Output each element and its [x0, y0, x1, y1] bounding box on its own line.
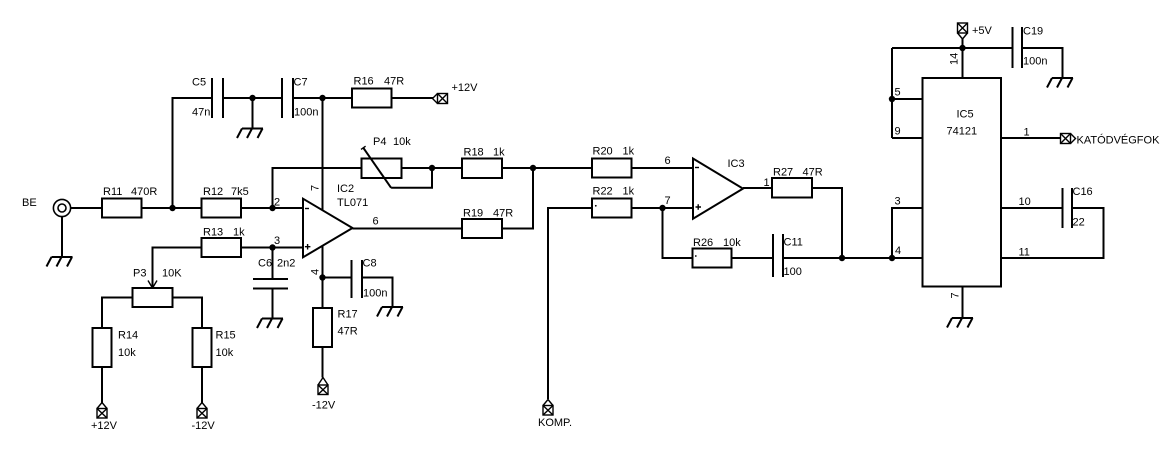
wire R17 to -12V port	[322, 347, 324, 378]
wire P4 wiper	[391, 168, 432, 188]
power port -12V	[192, 403, 216, 433]
svg-text:P3: P3	[133, 268, 146, 280]
ground	[377, 307, 403, 317]
svg-text:4: 4	[895, 245, 901, 257]
svg-text:6: 6	[665, 155, 671, 167]
svg-text:2n2: 2n2	[277, 258, 295, 270]
svg-text:C16: C16	[1073, 186, 1093, 198]
wire R16 to +12V port	[392, 97, 434, 99]
node 2 junction	[269, 205, 275, 211]
svg-text:5: 5	[895, 87, 901, 99]
wire junction down to IC2 pin 7	[322, 98, 324, 211]
svg-text:+5V: +5V	[972, 25, 993, 37]
wire P3 right terminal to R15	[173, 298, 203, 329]
resistor R14	[93, 328, 139, 367]
wire rail left leg to pins 5 and 9	[891, 48, 893, 138]
svg-text:C7: C7	[294, 77, 308, 89]
wire node 7 down to R26	[663, 208, 693, 258]
wire BE to R11	[71, 207, 102, 209]
node 7 junction	[659, 205, 665, 211]
svg-text:C11: C11	[784, 237, 803, 249]
node junction	[169, 205, 175, 211]
wire R26 to C11	[732, 257, 774, 259]
resistor R22	[592, 186, 635, 218]
ground	[1047, 78, 1073, 88]
svg-text:47R: 47R	[803, 167, 823, 179]
svg-text:1: 1	[764, 177, 770, 189]
P3 wiper arrow	[152, 282, 154, 288]
node 3 junction	[269, 244, 275, 250]
resistor R12	[202, 186, 249, 218]
node junction +5V rail	[959, 45, 965, 51]
wire junction down to ground	[252, 98, 254, 129]
wire +5V rail	[892, 47, 1013, 49]
ground	[257, 319, 283, 329]
node junction R27/C11	[839, 255, 845, 261]
resistor R20	[592, 146, 635, 178]
wire IC5 pin 14	[962, 48, 964, 78]
svg-text:7: 7	[950, 292, 962, 298]
svg-text:10k: 10k	[393, 136, 411, 148]
svg-text:7: 7	[310, 185, 322, 191]
capacitor C19	[1013, 26, 1048, 69]
node junction pin3/pin4	[889, 255, 895, 261]
svg-text:6: 6	[373, 216, 379, 228]
svg-text:R16: R16	[354, 76, 374, 88]
ground	[237, 129, 263, 139]
potentiometer P3	[133, 268, 183, 308]
svg-text:1k: 1k	[233, 227, 245, 239]
svg-text:100n: 100n	[294, 107, 318, 119]
svg-text:1k: 1k	[623, 146, 635, 158]
op-amp IC2	[303, 183, 368, 257]
wire R19 up to feedback node	[502, 168, 533, 229]
IC5 74121	[923, 78, 1002, 287]
wire +5V to rail	[962, 39, 964, 48]
wire R27 down to node	[812, 188, 842, 258]
node junction R18/R19/R20	[530, 165, 536, 171]
wire R13 to IC2 non-inverting input	[242, 247, 304, 249]
svg-text:C6: C6	[258, 258, 272, 270]
op-amp IC3	[693, 158, 745, 219]
wire node 2 up to feedback rail	[273, 168, 362, 208]
resistor R19	[462, 208, 513, 239]
svg-text:IC2: IC2	[337, 183, 354, 195]
resistor R13	[202, 227, 246, 258]
svg-text:10K: 10K	[162, 268, 182, 280]
svg-text:TL071: TL071	[337, 197, 368, 209]
svg-text:R20: R20	[593, 146, 613, 158]
wire C19 to ground	[1022, 48, 1063, 78]
wire node 4 to C8	[323, 277, 352, 279]
connector BE	[22, 197, 71, 217]
svg-text:R12: R12	[203, 186, 223, 198]
wire C8 to ground	[362, 278, 393, 308]
svg-text:1k: 1k	[623, 186, 635, 198]
svg-text:1k: 1k	[493, 147, 505, 159]
svg-text:R11: R11	[103, 186, 122, 198]
svg-text:IC5: IC5	[957, 109, 974, 121]
wire IC5 pin 1 to output port	[1001, 137, 1061, 139]
wire junction up to C5 rail	[173, 98, 213, 208]
svg-text:R18: R18	[464, 147, 484, 159]
capacitor C6	[253, 258, 295, 289]
capacitor C5	[192, 77, 223, 119]
svg-text:14: 14	[949, 53, 961, 65]
wire IC3 output to R27	[743, 187, 772, 189]
wire R18 to node	[502, 167, 592, 169]
potentiometer P4	[361, 136, 411, 188]
svg-text:IC3: IC3	[728, 158, 745, 170]
resistor R15	[193, 328, 236, 367]
wire C5 to C7	[223, 97, 282, 99]
svg-text:11: 11	[1019, 247, 1030, 259]
svg-text:4: 4	[310, 269, 322, 275]
wire R20 to IC3 inverting input	[632, 167, 694, 169]
svg-text:R27: R27	[773, 167, 793, 179]
svg-text:470R: 470R	[131, 186, 157, 198]
svg-text:47R: 47R	[493, 208, 513, 220]
svg-text:R13: R13	[203, 227, 223, 239]
svg-text:P4: P4	[373, 136, 386, 148]
svg-text:47R: 47R	[338, 326, 358, 338]
svg-text:7: 7	[665, 195, 671, 207]
resistor R16	[352, 76, 404, 108]
capacitor C7	[282, 77, 318, 119]
resistor R18	[462, 147, 505, 179]
port KOMP	[538, 400, 572, 430]
node junction	[249, 95, 255, 101]
wire IC5 pin 10 to C16	[1001, 207, 1063, 209]
svg-text:9: 9	[895, 126, 901, 138]
resistor R11	[102, 186, 157, 218]
svg-text:47R: 47R	[384, 76, 404, 88]
svg-text:47n: 47n	[192, 107, 210, 119]
svg-text:R17: R17	[338, 309, 358, 321]
svg-text:R15: R15	[216, 330, 236, 342]
svg-text:22: 22	[1073, 217, 1085, 229]
wire P4 right terminal to junction	[402, 167, 463, 169]
svg-text:C8: C8	[363, 258, 377, 270]
node junction	[319, 95, 325, 101]
svg-text:R19: R19	[463, 208, 483, 220]
wire R12 to IC2 inverting input	[242, 207, 304, 209]
wire IC5 pin 5	[892, 98, 923, 100]
svg-text:7k5: 7k5	[231, 186, 249, 198]
svg-text:3: 3	[895, 196, 901, 208]
capacitor C11	[773, 234, 803, 278]
node junction pin 5	[889, 96, 895, 102]
svg-text:74121: 74121	[947, 126, 978, 138]
wire node to IC5 pin 4	[842, 257, 923, 259]
wire IC5 pin 9	[892, 137, 923, 139]
wire C11 to node	[783, 257, 842, 259]
svg-text:BE: BE	[22, 197, 37, 209]
svg-text:10k: 10k	[723, 237, 741, 249]
resistor R26	[693, 237, 742, 268]
wire IC2 pin 4 down	[322, 246, 324, 308]
wire node up to IC5 pin 3	[892, 208, 923, 258]
svg-text:10k: 10k	[118, 347, 136, 359]
wire node 3 down to C6	[272, 248, 274, 280]
svg-text:KOMP.: KOMP.	[538, 417, 572, 429]
svg-text:100: 100	[784, 266, 802, 278]
power port +12V	[433, 82, 479, 104]
power port +5V	[958, 23, 993, 39]
ground	[47, 257, 73, 267]
svg-text:R14: R14	[118, 330, 138, 342]
capacitor C8	[352, 258, 388, 300]
wire C7 to R16	[293, 97, 352, 99]
wire IC2 output to R19	[353, 228, 463, 230]
svg-text:-12V: -12V	[192, 420, 216, 432]
svg-text:-12V: -12V	[312, 400, 336, 412]
svg-text:10k: 10k	[216, 347, 234, 359]
power port +12V	[91, 403, 118, 433]
wire P3 left terminal to R14	[102, 298, 133, 329]
wire R11 to R12	[142, 207, 202, 209]
svg-text:10: 10	[1019, 196, 1031, 208]
svg-text:KATÓDVÉGFOK: KATÓDVÉGFOK	[1077, 134, 1161, 147]
svg-text:C19: C19	[1023, 26, 1043, 38]
capacitor C16	[1063, 186, 1093, 229]
node junction P4/R18	[429, 165, 435, 171]
svg-text:+12V: +12V	[452, 82, 479, 94]
wire R14 to +12V port	[101, 367, 103, 403]
svg-text:3: 3	[274, 235, 280, 247]
wire IC5 pin 7 to ground	[962, 287, 964, 319]
svg-text:R22: R22	[593, 186, 613, 198]
wire R13 left to P3 wiper	[153, 248, 202, 282]
svg-text:R26: R26	[693, 237, 713, 249]
resistor R17	[313, 308, 358, 347]
svg-text:+12V: +12V	[91, 420, 118, 432]
svg-text:100n: 100n	[1023, 56, 1047, 68]
resistor R27	[772, 167, 823, 198]
ground	[947, 318, 973, 328]
svg-text:1: 1	[1024, 127, 1030, 139]
svg-text:100n: 100n	[363, 288, 387, 300]
wire R22 to IC3 non-inverting input	[632, 207, 694, 209]
wire R15 to -12V port	[201, 367, 203, 403]
wire BE down to ground	[61, 217, 63, 257]
port KATODVEGFOK	[1061, 134, 1161, 147]
wire C16 right to pin 11	[1001, 208, 1104, 258]
svg-text:2: 2	[274, 197, 280, 209]
power port -12V	[312, 378, 336, 412]
wire C6 to ground	[272, 289, 274, 319]
node 4 junction	[319, 274, 325, 280]
svg-text:C5: C5	[192, 77, 206, 89]
wire R22 left down to KOMP port	[548, 208, 592, 399]
